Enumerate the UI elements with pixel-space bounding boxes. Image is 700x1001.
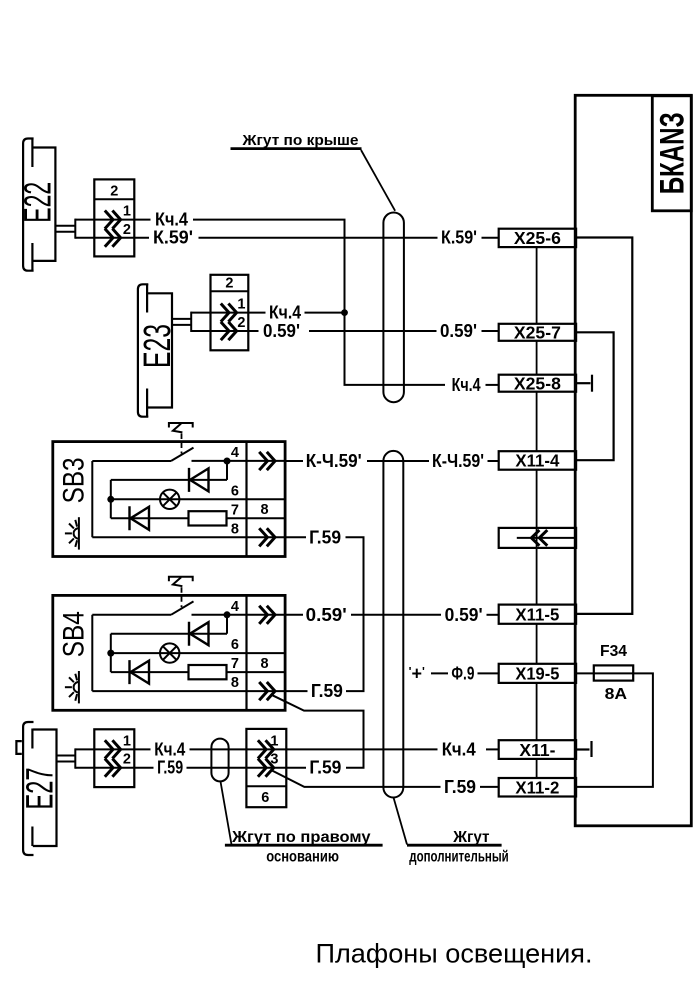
svg-text:Х11-4: Х11-4 bbox=[515, 451, 559, 471]
svg-text:8А: 8А bbox=[605, 686, 628, 703]
SB4 row pin7 wire bbox=[111, 671, 189, 673]
SB4 row pin4 wire bbox=[92, 614, 171, 616]
pin X11-2 bbox=[499, 778, 576, 797]
twisted pair E27 bbox=[57, 748, 76, 768]
svg-text:К.59': К.59' bbox=[153, 228, 193, 248]
svg-text:Х25-7: Х25-7 bbox=[514, 323, 561, 343]
diode VD2 SB3 bbox=[130, 506, 150, 530]
indicator lamp SB3 bbox=[160, 490, 179, 509]
label box БКАN3 bbox=[652, 96, 691, 211]
harness label Жгут по правому основанию bbox=[221, 782, 383, 866]
SB3 diode row wire bbox=[111, 479, 227, 481]
svg-text:8: 8 bbox=[260, 656, 268, 672]
svg-text:6: 6 bbox=[261, 790, 269, 806]
svg-text:Г.59: Г.59 bbox=[157, 758, 183, 778]
SB4 row pin6 wire bbox=[111, 652, 285, 654]
svg-text:1: 1 bbox=[237, 297, 245, 313]
svg-text:Жгут: Жгут bbox=[452, 829, 490, 846]
svg-text:Х25-6: Х25-6 bbox=[514, 228, 561, 248]
svg-text:Г.59: Г.59 bbox=[309, 758, 341, 778]
svg-text:4: 4 bbox=[231, 599, 239, 615]
svg-text:0.59': 0.59' bbox=[440, 321, 477, 341]
SB4 branch to diode bbox=[226, 615, 228, 634]
illumination symbol SB4 bbox=[65, 671, 79, 703]
svg-text:0.59': 0.59' bbox=[306, 605, 347, 625]
pin X11- bbox=[499, 740, 576, 759]
wire Г.59 SB4 chevron diagonal down to E27 row bbox=[273, 695, 364, 767]
SB4 contact chevron pin4 bbox=[259, 606, 275, 624]
svg-text:Ф.9: Ф.9 bbox=[451, 663, 474, 683]
wire К-Ч.59' from SB3 pin4 to X11-4 bbox=[285, 451, 499, 471]
svg-text:2: 2 bbox=[237, 315, 245, 331]
resistor R SB4 bbox=[189, 665, 227, 679]
harness label Жгут дополнительный bbox=[394, 798, 509, 866]
SB4 switch blade bbox=[171, 601, 194, 614]
svg-text:Х11-5: Х11-5 bbox=[515, 605, 559, 625]
wire Г.59 from SB3 pin8 down to SB4 bbox=[285, 527, 363, 701]
svg-text:БКАNЗ: БКАNЗ bbox=[654, 112, 692, 194]
wire Кч.4 from E27 pin1 to X11- bbox=[75, 739, 498, 759]
SB3 outer box bbox=[53, 442, 285, 557]
pin X25-6 bbox=[499, 229, 576, 247]
pin X25-8 bbox=[499, 375, 576, 392]
SB4 contact chevron pin8 bbox=[259, 682, 275, 700]
svg-text:Жгут по крыше: Жгут по крыше bbox=[241, 133, 358, 149]
svg-text:3: 3 bbox=[270, 752, 278, 768]
svg-text:Х11-2: Х11-2 bbox=[515, 777, 559, 797]
internal stub X25-8 bbox=[576, 375, 592, 392]
wire Кч.4 from E23 pin1 to junction bbox=[191, 303, 344, 323]
SB3 row pin6 wire bbox=[111, 498, 285, 500]
svg-text:E27: E27 bbox=[20, 768, 62, 810]
svg-text:Х19-5: Х19-5 bbox=[515, 664, 559, 684]
svg-text:К-Ч.59': К-Ч.59' bbox=[432, 451, 484, 471]
junction dot (E23 tap on Кч.4) bbox=[341, 309, 348, 316]
SB3 junction dot pin4 bbox=[224, 458, 231, 465]
switch SB4 bbox=[53, 577, 285, 711]
SB4 left branch bbox=[110, 634, 112, 672]
indicator lamp SB4 bbox=[160, 643, 179, 662]
connector X (right of E27) bbox=[246, 729, 286, 807]
svg-text:Кч.4: Кч.4 bbox=[269, 303, 301, 323]
diode VD1 SB3 bbox=[189, 468, 209, 492]
wire 0.59' from SB4 pin4 to X11-5 bbox=[285, 605, 499, 625]
SB3 junction dot lamp row bbox=[107, 496, 114, 503]
SB3 switch blade bbox=[171, 448, 194, 461]
actuator (push-button) SB3 bbox=[169, 423, 193, 454]
SB4 outer box bbox=[53, 595, 285, 710]
svg-text:К-Ч.59': К-Ч.59' bbox=[306, 451, 362, 471]
svg-text:7: 7 bbox=[231, 502, 239, 518]
svg-text:1: 1 bbox=[123, 733, 131, 749]
connector at E23 bbox=[211, 275, 249, 351]
harness oval (additional) bbox=[383, 451, 403, 798]
svg-text:2: 2 bbox=[123, 752, 131, 768]
SB4 junction dot pin4 bbox=[224, 611, 231, 618]
svg-text:Кч.4: Кч.4 bbox=[155, 210, 188, 230]
internal stub X11- bbox=[576, 741, 591, 757]
switch SB3 bbox=[53, 423, 285, 557]
connector at E22 bbox=[94, 179, 134, 256]
svg-text:основанию: основанию bbox=[266, 848, 339, 865]
svg-text:2: 2 bbox=[110, 184, 118, 200]
pin X19-5 bbox=[499, 664, 576, 683]
svg-text:E23: E23 bbox=[137, 324, 179, 368]
connector pin chain line bbox=[536, 247, 538, 778]
SB3 contact chevron pin8 bbox=[259, 528, 275, 546]
svg-text:Г.59: Г.59 bbox=[309, 527, 341, 547]
wire '+' Ф.9 to X19-5 bbox=[409, 663, 499, 683]
lamp E23 (plafond symbol) bbox=[138, 284, 172, 416]
svg-text:4: 4 bbox=[231, 445, 239, 461]
SB3 branch to diode bbox=[226, 461, 228, 480]
SB4 diode row wire bbox=[111, 633, 227, 635]
illumination symbol SB3 bbox=[65, 517, 79, 549]
SB3 row pin7 wire bbox=[111, 517, 189, 519]
svg-text:2: 2 bbox=[225, 276, 233, 292]
lamp E27 (plafond symbol) bbox=[16, 722, 56, 855]
actuator (push-button) SB4 bbox=[169, 577, 193, 608]
svg-text:8: 8 bbox=[260, 502, 268, 518]
wire 0.59' from E23 pin2 to X25-7 bbox=[191, 321, 499, 341]
wire Г.59 E27 pin2 row bbox=[75, 758, 341, 778]
svg-text:К.59': К.59' bbox=[441, 228, 477, 248]
pin X11-5 bbox=[499, 605, 576, 624]
SB4 junction dot lamp row bbox=[107, 650, 114, 657]
svg-text:Х11-: Х11- bbox=[519, 740, 555, 760]
connector junction box with chevron bbox=[499, 528, 576, 548]
svg-text:6: 6 bbox=[231, 637, 239, 653]
block BKAN3 outer box bbox=[575, 95, 691, 826]
svg-text:0.59': 0.59' bbox=[445, 605, 483, 625]
twisted pair E22 bbox=[56, 219, 75, 239]
pin X25-7 bbox=[499, 324, 576, 341]
svg-text:Плафоны освещения.: Плафоны освещения. bbox=[316, 939, 593, 969]
svg-text:Х25-8: Х25-8 bbox=[514, 373, 561, 393]
svg-text:1: 1 bbox=[123, 204, 131, 220]
svg-text:E22: E22 bbox=[17, 182, 59, 223]
fuse F34 circuit X19-5 to X11-2 bbox=[576, 643, 653, 787]
wire Кч.4 from E22 pin1 down to X25-8 bbox=[75, 210, 498, 395]
resistor R SB3 bbox=[189, 511, 227, 525]
svg-text:Жгут по правому: Жгут по правому bbox=[231, 829, 371, 846]
svg-text:2: 2 bbox=[123, 222, 131, 238]
connector at E27 bbox=[94, 729, 134, 787]
svg-text:8: 8 bbox=[231, 675, 239, 691]
svg-text:Кч.4: Кч.4 bbox=[452, 375, 481, 395]
svg-text:Г.59: Г.59 bbox=[311, 681, 343, 701]
twisted pair E23 bbox=[172, 312, 191, 332]
SB4 row pin8 wire bbox=[92, 690, 285, 692]
harness oval (roof) bbox=[383, 213, 404, 403]
harness label Жгут по крыше bbox=[231, 133, 396, 211]
svg-text:7: 7 bbox=[231, 656, 239, 672]
lamp E22 (plafond symbol) bbox=[23, 139, 55, 271]
svg-text:Г.59: Г.59 bbox=[444, 777, 476, 797]
internal wire X25-6 to X11-5 bbox=[576, 238, 632, 614]
SB4 inner circuit left side bbox=[91, 615, 93, 691]
svg-text:F34: F34 bbox=[600, 643, 627, 660]
wire Г.59 diagonal from connector pin3 to X11-2 bbox=[271, 770, 499, 797]
svg-text:Кч.4: Кч.4 bbox=[442, 739, 476, 759]
diode VD2 SB4 bbox=[130, 660, 150, 684]
svg-text:0.59': 0.59' bbox=[263, 321, 300, 341]
svg-text:SB4: SB4 bbox=[58, 611, 91, 657]
svg-text:1: 1 bbox=[270, 733, 278, 749]
wire К.59' from E22 pin2 to X25-6 bbox=[75, 228, 498, 248]
harness oval (right base, small) bbox=[211, 739, 228, 782]
SB3 pin column divider bbox=[245, 442, 247, 557]
svg-text:дополнительный: дополнительный bbox=[409, 848, 508, 865]
svg-text:Кч.4: Кч.4 bbox=[154, 739, 185, 759]
pin X11-4 bbox=[499, 451, 576, 470]
SB3 inner circuit left side bbox=[91, 461, 93, 537]
svg-text:8: 8 bbox=[231, 521, 239, 537]
SB3 contact chevron pin4 bbox=[259, 452, 275, 470]
SB4 pin column divider bbox=[245, 595, 247, 710]
SB3 left branch bbox=[110, 480, 112, 518]
SB3 row pin8 wire bbox=[92, 536, 285, 538]
svg-text:SB3: SB3 bbox=[58, 457, 91, 503]
SB3 row pin4 wire bbox=[92, 460, 171, 462]
diode VD1 SB4 bbox=[189, 622, 209, 646]
svg-text:6: 6 bbox=[231, 483, 239, 499]
internal wire X25-7 to X11-4 bbox=[576, 332, 614, 460]
